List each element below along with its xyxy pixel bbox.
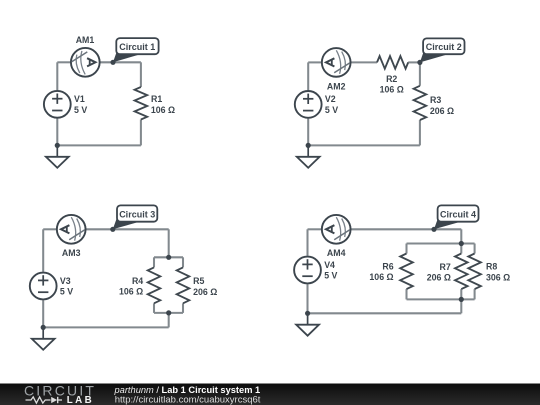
wire: R2 right to node (Circuit 2 anchor)	[408, 61, 420, 63]
ammeter AM1	[71, 48, 100, 77]
wire: AM2 right to R2 left	[350, 61, 377, 63]
wire: R8 top stub	[474, 244, 476, 254]
svg-text:V4: V4	[324, 260, 335, 270]
svg-text:206 Ω: 206 Ω	[430, 106, 454, 116]
svg-text:R5: R5	[193, 276, 204, 286]
wire: circuit 1 top-left corner down to V1 top	[56, 62, 58, 90]
resistor R4	[148, 267, 161, 303]
svg-text:V2: V2	[325, 94, 336, 104]
svg-text:AM3: AM3	[62, 248, 81, 258]
junction dot: parallel bottom bar circuit 3	[166, 310, 171, 315]
wire: R3 branch top segment	[419, 62, 421, 85]
wire: R7 top stub	[460, 244, 462, 254]
svg-text:http://circuitlab.com/cuabuxyr: http://circuitlab.com/cuabuxyrcsq6t	[115, 394, 261, 405]
resistor R5	[177, 267, 190, 303]
wire: circuit 2 bottom rail	[308, 144, 420, 146]
svg-text:R7: R7	[440, 262, 451, 272]
svg-text:5 V: 5 V	[324, 271, 337, 281]
flag tail Circuit 1	[113, 48, 140, 62]
wire: R1 branch top segment	[140, 62, 142, 87]
wire: AM3 right to node (Circuit 3 anchor) and to right corner	[85, 228, 168, 230]
wire: AM1 right to node (Circuit 1 anchor) and on to right corner	[99, 61, 141, 63]
junction dot: circuit 3 ground node	[41, 325, 46, 330]
wire: V4 bottom to ground node	[306, 284, 308, 313]
junction dot: parallel bottom bar circuit 4	[459, 297, 464, 302]
svg-text:V1: V1	[74, 94, 85, 104]
resistor R3	[414, 86, 427, 120]
flag box Circuit 3	[117, 205, 157, 221]
svg-text:5 V: 5 V	[325, 105, 338, 115]
junction dot: circuit 2 ground node	[306, 143, 311, 148]
junction dot: parallel top bar circuit 4	[459, 241, 464, 246]
svg-text:306 Ω: 306 Ω	[486, 273, 510, 283]
wire: V2 bottom to ground node	[307, 119, 309, 146]
svg-text:R4: R4	[132, 276, 143, 286]
ammeter AM4 (rotated 180)	[322, 215, 351, 244]
wire: circuit 3 bottom rail	[43, 326, 169, 328]
flag box Circuit 4	[438, 205, 479, 221]
svg-text:206 Ω: 206 Ω	[193, 287, 217, 297]
svg-text:5 V: 5 V	[74, 105, 87, 115]
svg-text:LAB: LAB	[67, 395, 94, 405]
wire: circuit 2 top-left corner down to V2 top	[307, 62, 309, 90]
wire: circuit 3 top-left corner to AM3 left	[43, 228, 57, 230]
wire: R4 bottom stub	[153, 303, 155, 313]
svg-text:106 Ω: 106 Ω	[369, 272, 393, 282]
svg-text:AM4: AM4	[327, 248, 346, 258]
wire: R5 bottom stub	[182, 303, 184, 313]
svg-text:Circuit 1: Circuit 1	[119, 42, 155, 52]
wire: R6 bottom stub	[405, 289, 407, 299]
svg-text:R2: R2	[386, 74, 397, 84]
resistor R7	[455, 254, 468, 290]
wire: parallel top bar (R6/R7/R8)	[407, 242, 475, 244]
flag box Circuit 2	[423, 38, 464, 54]
wire: R3 branch bottom segment	[419, 120, 421, 145]
ground circuit 4	[296, 313, 319, 335]
junction dot: circuit 1 ground node	[55, 143, 60, 148]
wire: right corner down to parallel top bar	[168, 229, 170, 257]
footer bar	[0, 384, 540, 405]
wire: R4 top stub	[153, 257, 155, 267]
ammeter AM2 (rotated 180)	[322, 48, 351, 77]
ground circuit 3	[32, 327, 55, 349]
wire: V1 bottom to ground node	[56, 119, 58, 146]
footer logo resistor squiggle	[26, 397, 51, 403]
flag tail Circuit 3	[113, 215, 140, 229]
ground circuit 2	[297, 145, 320, 167]
wire: AM4 right through node (Circuit 4 anchor) to right corner	[350, 228, 461, 230]
footer logo diode symbol	[51, 397, 57, 403]
wire: V3 bottom to ground node	[42, 300, 44, 327]
svg-text:AM2: AM2	[327, 81, 346, 91]
flag box Circuit 1	[116, 38, 158, 54]
svg-text:Circuit 2: Circuit 2	[426, 42, 462, 52]
flag tail Circuit 4	[434, 215, 461, 229]
node dot: Circuit 4 anchor	[431, 227, 436, 232]
svg-text:106 Ω: 106 Ω	[380, 85, 404, 95]
node dot: Circuit 3 anchor	[110, 227, 115, 232]
wire: parallel bottom bar junction down to bottom rail	[168, 313, 170, 328]
wire: R8 bottom stub	[474, 289, 476, 299]
wire: circuit 1 bottom rail	[57, 144, 141, 146]
node dot: Circuit 1 anchor	[110, 60, 115, 65]
voltage source V2	[295, 91, 322, 118]
svg-text:106 Ω: 106 Ω	[151, 105, 175, 115]
svg-text:R6: R6	[382, 262, 393, 272]
svg-text:5 V: 5 V	[60, 287, 73, 297]
ground circuit 1	[46, 145, 69, 167]
node dot: Circuit 2 anchor	[417, 60, 422, 65]
voltage source V4	[294, 257, 321, 284]
junction dot: circuit 4 ground node	[305, 311, 310, 316]
wire: right corner down to parallel top bar junction	[460, 229, 462, 243]
voltage source V1	[44, 91, 71, 118]
svg-text:206 Ω: 206 Ω	[427, 273, 451, 283]
voltage source V3	[30, 273, 57, 300]
resistor R6	[400, 254, 413, 290]
flag tail Circuit 2	[420, 48, 446, 62]
resistor R2	[377, 56, 408, 69]
wire: circuit 4 top-left corner to AM4 left	[308, 228, 323, 230]
ammeter AM3 (rotated 180)	[57, 215, 86, 244]
wire: parallel top bar (R4/R5)	[154, 256, 183, 258]
wire: R1 branch bottom segment	[140, 120, 142, 146]
wire: circuit 4 bottom rail	[308, 312, 462, 314]
svg-text:106 Ω: 106 Ω	[119, 287, 143, 297]
svg-text:AM1: AM1	[76, 35, 95, 45]
wire: circuit 3 top-left corner down to V3 top	[42, 229, 44, 271]
wire: R5 top stub	[182, 257, 184, 267]
wire: parallel bottom bar (R6/R7/R8)	[407, 298, 475, 300]
wire: R7 bottom stub	[460, 289, 462, 299]
wire: circuit 4 top-left corner down to V4 top	[306, 229, 308, 256]
resistor R1	[135, 87, 148, 120]
wire: circuit 2 top-left corner to AM2 left	[308, 61, 322, 63]
svg-text:Circuit 4: Circuit 4	[440, 209, 476, 219]
svg-text:R1: R1	[151, 94, 162, 104]
resistor R8	[468, 254, 481, 290]
wire: circuit 1 top-left corner to AM1 left	[57, 61, 71, 63]
svg-text:R3: R3	[430, 95, 441, 105]
svg-text:Circuit 3: Circuit 3	[119, 209, 155, 219]
junction dot: parallel top bar circuit 3	[166, 255, 171, 260]
wire: parallel bottom bar junction down to bottom rail	[460, 299, 462, 313]
svg-text:R8: R8	[486, 262, 497, 272]
wire: parallel bottom bar (R4/R5)	[154, 312, 183, 314]
svg-text:V3: V3	[60, 276, 71, 286]
wire: R6 top stub	[405, 244, 407, 254]
